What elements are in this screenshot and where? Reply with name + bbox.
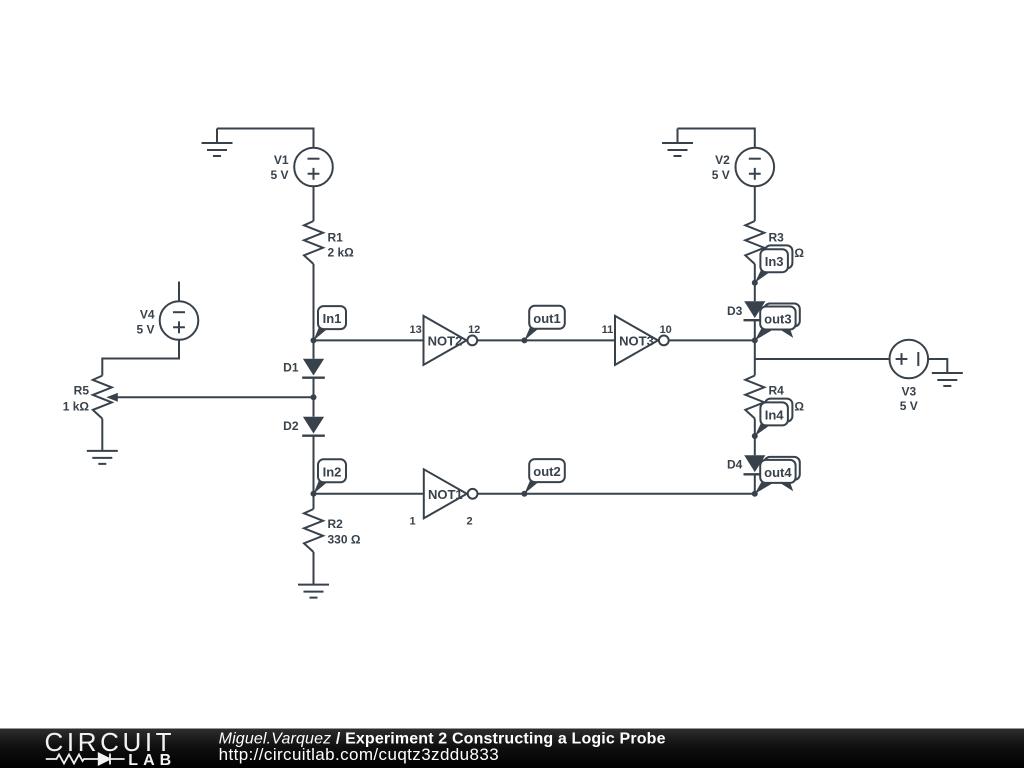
footer url text [219,745,499,764]
wire V3 to ground [928,359,947,373]
ground (right of V3) [932,373,963,386]
svg-text:out3: out3 [764,312,791,327]
svg-text:13: 13 [410,324,422,336]
wire In2 node to R2 [313,494,315,509]
flag out1 [524,306,564,341]
diode D4 [744,455,767,474]
inverter NOT3 [615,316,669,365]
wire In2 to NOT1 input [314,493,424,495]
pin 12 NOT2 output [468,324,480,336]
voltage source V1 [294,148,333,187]
flag In4 [755,399,793,436]
CircuitLab logo wordmark CIRCUIT [45,727,176,757]
inverter NOT1 [424,469,478,518]
footer bar [0,729,1024,768]
wire D1 to D2 through wiper node [313,378,315,417]
flag In1 [314,306,347,340]
value R3 330 Ohm [771,246,804,260]
resistor R4 [745,376,764,419]
value V2 5 V [712,168,730,182]
flag out2 [524,459,564,494]
wire R1 to node In1 [313,264,315,340]
label V1 [274,153,289,167]
value V4 5 V [136,322,154,336]
node out4 [752,491,758,497]
label V3 [901,384,916,398]
wire V1 to R1 [313,186,315,221]
svg-text:NOT2: NOT2 [428,333,463,348]
label D4 [727,458,743,472]
wire V1 top to ground [217,129,314,148]
node In3 [752,280,758,286]
svg-text:10: 10 [660,324,672,336]
flag out3 [755,304,800,341]
svg-text:5 V: 5 V [900,399,918,413]
potentiometer R5 wiper arrow [106,393,118,402]
svg-text:V2: V2 [715,153,730,167]
diode D3 [744,301,767,320]
svg-text:NOT1: NOT1 [428,487,463,502]
svg-text:In3: In3 [765,254,784,269]
wire V4 to R5 [102,340,179,376]
pin 13 NOT2 input [410,324,422,336]
ground (below R2) [298,585,329,598]
node out2 [521,491,527,497]
svg-text:In1: In1 [323,311,342,326]
svg-text:LAB: LAB [128,752,176,768]
value R5 1 kOhm [63,399,90,413]
svg-text:2: 2 [466,516,472,528]
svg-text:V3: V3 [901,384,916,398]
voltage source V2 [736,148,775,187]
svg-text:http://circuitlab.com/cuqtz3zd: http://circuitlab.com/cuqtz3zddu833 [219,745,499,764]
wire NOT2 output to NOT3 input [477,339,615,341]
flag out4 [755,457,800,494]
svg-text:out1: out1 [533,311,560,326]
svg-text:In2: In2 [323,464,342,479]
inverter NOT2 [424,316,478,365]
svg-text:5 V: 5 V [136,322,154,336]
pin 10 NOT3 output [660,324,672,336]
svg-text:330 Ω: 330 Ω [328,533,361,547]
resistor R2 [304,509,323,552]
svg-text:5 V: 5 V [712,168,730,182]
CircuitLab logo doodle (resistor + diode) [46,754,125,765]
resistor R5 (potentiometer) [93,376,112,419]
wire In1 to NOT2 input [314,339,424,341]
wire D3 to V3 tee [754,320,756,359]
wire tee to R4 [754,359,756,376]
svg-text:R5: R5 [74,384,90,398]
resistor R3 [745,221,764,264]
node out1 [521,337,527,343]
svg-text:R3: R3 [769,231,785,245]
footer title text [219,731,666,748]
pin 1 NOT1 input [409,516,415,528]
value R1 2 kOhm [328,246,355,260]
value V1 5 V [270,168,288,182]
diode D1 [302,359,325,378]
svg-text:1: 1 [409,516,415,528]
flag In2 [314,459,347,494]
svg-text:11: 11 [602,324,614,336]
wire R5 to ground [101,419,103,451]
voltage source V3 [890,340,929,379]
label R3 [769,231,785,245]
wire R4 to D4 through node In4 [754,419,756,456]
ground (V1 negative) [202,129,233,157]
svg-text:R2: R2 [328,517,344,531]
label D1 [283,360,299,374]
wire V4 top stub [178,282,180,302]
svg-text:D4: D4 [727,458,743,472]
svg-text:1 kΩ: 1 kΩ [63,399,90,413]
wire V2 to R3 [754,186,756,221]
svg-text:R1: R1 [328,231,344,245]
svg-text:12: 12 [468,324,480,336]
svg-text:out2: out2 [533,464,560,479]
svg-text:D2: D2 [283,419,299,433]
node In4 [752,433,758,439]
diode D2 [302,417,325,436]
wire NOT3 output to node out3 [669,339,755,341]
label R5 [74,384,90,398]
svg-text:R4: R4 [769,384,785,398]
voltage source V4 [160,301,199,340]
wire D4 to node out4 [754,474,756,494]
svg-text:5 V: 5 V [270,168,288,182]
label V2 [715,153,730,167]
label D2 [283,419,299,433]
svg-text:V4: V4 [140,308,155,322]
label R1 [328,231,344,245]
wire In1 node to D1 [313,340,315,358]
pin 2 NOT1 output [466,516,472,528]
resistor R1 [304,221,323,264]
svg-text:NOT3: NOT3 [619,333,654,348]
svg-text:D3: D3 [727,304,743,318]
pin 11 NOT3 input [602,324,614,336]
node wiper junction [311,394,317,400]
ground (V2 negative) [662,129,693,157]
svg-text:D1: D1 [283,360,299,374]
value R4 330 Ohm [771,399,804,413]
label R4 [769,384,785,398]
CircuitLab logo wordmark LAB [128,752,176,768]
label R2 [328,517,344,531]
wire tee to V3 [755,358,890,360]
svg-text:out4: out4 [764,465,792,480]
flag In3 [755,245,793,282]
value R2 330 Ohm [328,533,361,547]
wire R5 wiper to diode junction [117,396,314,398]
wire V2 top to ground [678,129,755,148]
wire R3 to D3 through node In3 [754,264,756,301]
svg-text:2 kΩ: 2 kΩ [328,246,355,260]
node In2 [311,491,317,497]
svg-text:In4: In4 [765,407,785,422]
label V4 [140,308,155,322]
wire D2 to node In2 [313,436,315,494]
svg-text:V1: V1 [274,153,289,167]
node In1 [311,337,317,343]
node out3 [752,337,758,343]
wire R2 to ground [313,552,315,585]
wire NOT1 output to node out4 [478,493,755,495]
label D3 [727,304,743,318]
value V3 5 V [900,399,918,413]
ground (below R5) [87,451,118,464]
